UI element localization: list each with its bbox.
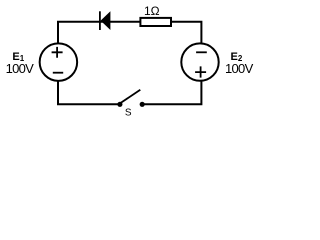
svg-text:1Ω: 1Ω bbox=[144, 4, 160, 18]
svg-text:100V: 100V bbox=[6, 61, 35, 76]
svg-text:100V: 100V bbox=[225, 61, 254, 76]
svg-text:S: S bbox=[125, 108, 132, 119]
